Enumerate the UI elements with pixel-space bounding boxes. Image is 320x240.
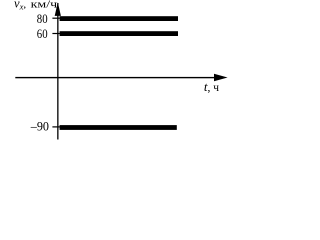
velocity segment v=80 <box>60 16 178 21</box>
svg-text:vx,: vx, <box>14 0 26 12</box>
velocity segment v=-90 <box>60 125 177 130</box>
y-axis <box>57 3 58 140</box>
svg-text:км/ч: км/ч <box>31 0 58 11</box>
svg-text:t, ч: t, ч <box>204 79 219 94</box>
svg-text:80: 80 <box>37 11 48 26</box>
svg-text:–90: –90 <box>30 119 49 134</box>
tick at 80 <box>52 18 59 19</box>
tick at 60 <box>52 33 59 34</box>
x-axis arrowhead <box>214 74 228 81</box>
x-axis <box>15 77 215 78</box>
velocity segment v=60 <box>60 31 178 36</box>
tick at -90 <box>52 126 59 127</box>
y-axis arrowhead <box>55 2 61 16</box>
svg-text:60: 60 <box>37 26 48 41</box>
